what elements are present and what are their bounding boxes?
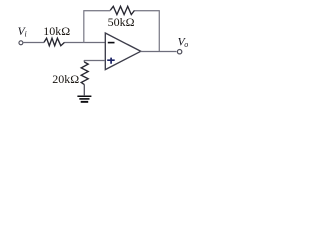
wire: feedback left vertical and top horizontal to R2 xyxy=(84,11,110,43)
wire: R3 to ground xyxy=(83,85,85,96)
wire: op-amp output to terminal xyxy=(141,51,177,53)
svg-text:20kΩ: 20kΩ xyxy=(52,72,79,86)
output terminal circle Vo xyxy=(177,50,181,54)
svg-text:50kΩ: 50kΩ xyxy=(108,15,135,29)
wire: non-inverting input horizontal with elbow down to R3 xyxy=(84,61,105,63)
op-amp U1 triangle xyxy=(105,33,141,70)
op-amp non-inverting input plus sign xyxy=(107,58,115,64)
op-amp inverting input minus sign xyxy=(108,42,115,44)
svg-text:i: i xyxy=(25,30,27,39)
wire: top feedback horizontal (right of R2) and right vertical down to output xyxy=(135,11,160,52)
wire: R1 to op-amp inverting input xyxy=(65,42,106,44)
ground symbol xyxy=(77,96,91,98)
resistor R2 50k zigzag xyxy=(110,6,134,14)
resistor R3 20k vertical zigzag xyxy=(81,62,88,85)
input terminal circle Vi xyxy=(19,41,23,45)
svg-text:o: o xyxy=(184,40,188,49)
svg-text:10kΩ: 10kΩ xyxy=(43,24,70,38)
wire: input terminal to resistor R1 xyxy=(23,42,44,44)
resistor R1 10k zigzag xyxy=(44,38,65,46)
